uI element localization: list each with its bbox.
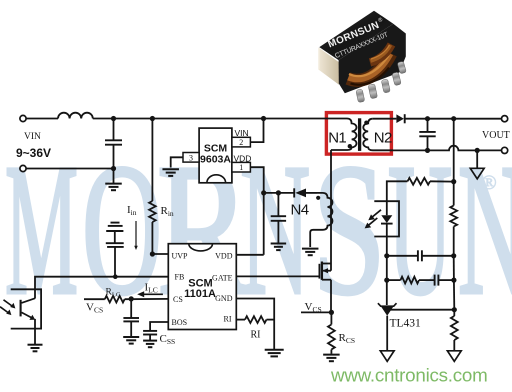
capacitor C2 output [427,119,429,132]
output terminal VOUT- [502,147,508,153]
wire GND pin [236,299,274,350]
node SCM9603A VIN riser [261,116,266,121]
node compensation row1 left [384,253,389,258]
wire pin3 to ground [171,157,183,167]
ground SCM1101A [265,349,284,351]
ground secondary [476,150,478,168]
capacitor C5 compensation [419,279,435,281]
svg-text:CS: CS [173,295,183,304]
diode D2 aux rectifier [293,188,295,197]
capacitor C7 stack lower [114,231,116,243]
phototransistor Q2 [20,300,22,317]
svg-text:VDD: VDD [215,252,233,261]
wire VDD horizontal [264,192,295,194]
ground optocoupler emitter [28,344,43,346]
node feedback riser top [451,116,456,121]
node VDD rail [261,190,266,195]
transformer T1 primary N1 [331,119,357,151]
node compensation row2 left [384,278,389,283]
ground input rail [113,169,115,184]
optocoupler U3 LED enclosure [374,201,399,236]
node VCS right [329,310,334,315]
wire source to RCS [330,280,332,313]
svg-text:UVP: UVP [172,252,189,261]
capacitor C8 CS filter [130,299,132,318]
svg-text:N4: N4 [291,202,309,219]
node VDD cap [276,190,281,195]
ground RCS [323,354,340,356]
svg-text:1101A: 1101A [184,288,216,300]
wire feedback riser [453,119,455,182]
node output cap bottom [425,148,430,153]
capacitor C3 VDD [277,193,279,216]
resistor R4 divider lower [453,310,455,316]
wire GATE to MOSFET [236,275,319,277]
node feedback divider top [451,179,456,184]
capacitor C6 stack upper [111,222,120,224]
optocoupler U3 transistor enclosure [11,289,41,328]
diode D1 output rectifier [396,114,404,123]
transformer T1 core [358,118,361,151]
inductor L1 [58,113,93,119]
svg-text:VDD: VDD [234,153,252,163]
wire divider riser row2-ref [453,280,455,310]
svg-text:GND: GND [215,294,233,303]
wire VCS stub right [301,311,331,313]
wire TL431 cathode [386,280,388,305]
wire pin2 to top rail [250,119,263,143]
arrow ILC [141,293,163,295]
inductor N4 aux winding [310,193,332,247]
wire VDD riser to SCM1101A [263,193,265,255]
svg-text:3: 3 [189,153,193,162]
transformer highlight red box [326,113,391,155]
svg-text:RI: RI [224,315,232,324]
watermark MORNSUN [5,127,78,334]
wire left branch row1-row2 [386,256,388,280]
polarity dot N4 [316,196,320,200]
resistor RLC [105,296,125,303]
transistor Q1 MOSFET [318,264,320,279]
wire Rin riser [151,119,153,202]
svg-text:N2: N2 [374,130,392,147]
wire TL431 ref [391,309,455,311]
resistor Rin [149,201,156,222]
input terminal VIN+ [20,115,26,121]
ground divider lower [447,351,461,362]
svg-text:VIN: VIN [24,132,41,142]
ground TL431 [380,351,394,362]
wire bottom input rail [26,168,113,170]
wire top rail left [26,118,58,120]
node output cap top [425,116,430,121]
wire top rail to transformer [93,118,347,120]
wire RI pin [236,319,245,321]
ground N4 [302,248,319,250]
node compensation row2 right [451,278,456,283]
pin 1 SCM9603A [232,162,251,172]
polarity dot N2 [364,121,368,125]
node input cap top [111,116,116,121]
LED light arrows [371,210,381,218]
svg-text:FB: FB [175,273,185,282]
wire LED branch top [387,181,408,201]
wire RLC to CS pin [125,298,169,300]
wire FB rail [35,277,168,299]
polarity dot N1 [348,144,352,148]
svg-text:N1: N1 [328,130,346,147]
wire BOS to Css [150,322,168,331]
arrow Iin current direction [135,221,137,247]
LED optocoupler diode [386,201,388,215]
wire N2 top to output diode [373,118,397,120]
pin 3 SCM9603A [183,153,199,163]
wire transformer primary to drain [330,150,332,264]
pin 2 SCM9603A [232,137,251,147]
node Rin top [150,116,155,121]
node FB cap stack [113,274,118,279]
svg-text:VIN: VIN [235,128,249,138]
resistor R3 compensation [401,277,419,284]
svg-text:RI: RI [251,330,261,341]
output terminal VOUT+ [502,116,508,122]
svg-text:®: ® [482,172,497,194]
input terminal VIN- [20,165,26,171]
svg-text:N: N [458,126,512,334]
svg-text:9603A: 9603A [200,154,231,166]
shunt regulator U4 TL431 [378,303,397,306]
op-amp U1 SCM1101A body [168,244,236,330]
ground CS cap [123,336,139,338]
op-amp U2 SCM9603A body [199,128,232,183]
ground VDD cap [271,243,287,245]
resistor RCS [330,312,332,324]
resistor RI [245,316,266,323]
wire output rail bottom with crossover hop [393,146,502,151]
node compensation row1 right [451,253,456,258]
wire Rin to UVP [151,222,153,254]
svg-text:1: 1 [239,163,243,172]
wire cap stack to FB rail [114,247,116,277]
wire VCS stub [84,298,105,300]
transformer T1 secondary N2 [363,119,393,151]
svg-text:BOS: BOS [172,318,188,327]
node CS [129,296,134,301]
node output ground [475,148,480,153]
ground SCM9603A pin3 [162,168,179,170]
resistor R1 LED series [408,178,431,185]
wire pin1 to VDD node [250,167,263,193]
ground Css [143,340,157,342]
wire divider riser row1-row2 [453,256,455,280]
svg-text:2: 2 [239,138,243,147]
svg-text:U: U [388,125,452,333]
node divider mid [452,307,457,312]
capacitor Css soft start [143,330,157,332]
svg-text:VOUT: VOUT [482,130,510,141]
svg-text:TL431: TL431 [390,318,422,330]
svg-text:www.cntronics.com: www.cntronics.com [330,364,487,385]
wire output rail top [405,118,502,120]
node input cap bottom [111,166,116,171]
resistor R2 divider upper [453,182,455,206]
capacitor C1 input filter [113,119,115,141]
capacitor C4 compensation [387,255,418,257]
svg-text:GATE: GATE [212,274,233,283]
light arrows into phototransistor [4,300,14,307]
svg-text:9~36V: 9~36V [16,146,51,160]
transformer photo [318,11,406,103]
